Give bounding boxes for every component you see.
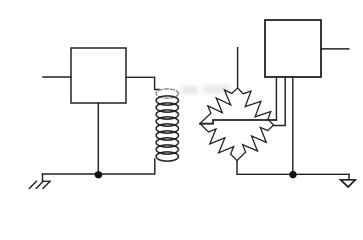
ground arrow (right) [348, 174, 350, 180]
wire input left stub [43, 76, 71, 78]
ground chassis (left) [43, 174, 51, 181]
resistor bridge lower-left [200, 124, 237, 161]
resistor bridge upper-right [238, 88, 274, 125]
wire bridge left node to U2 pin1 [200, 120, 276, 124]
wire U2 pin3 vertical to bottom rail [292, 77, 294, 174]
wire bridge top stub [237, 48, 239, 88]
junction dot left [95, 171, 103, 178]
wire bridge bottom to right rail [237, 161, 349, 175]
inductor L1 (coil) [156, 89, 178, 161]
resistor bridge lower-right [237, 125, 274, 161]
block U1 (left box) [71, 48, 126, 103]
junction dot right [289, 171, 297, 178]
wire U2 pin2 to bridge right node [274, 77, 285, 126]
wire U1 bottom to bottom rail [97, 103, 99, 174]
block U2 (right box) [265, 20, 321, 77]
wire U2 pin1 vertical [275, 77, 277, 120]
resistor bridge upper-left [200, 88, 238, 124]
watermark smudge [181, 85, 231, 94]
wire U1 output to coil top [126, 77, 159, 89]
wire coil bottom down and left [43, 159, 155, 174]
wire U2 right stub [321, 48, 349, 50]
